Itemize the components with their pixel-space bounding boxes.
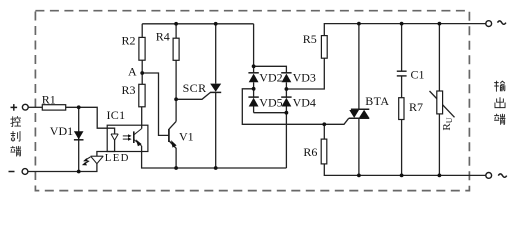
svg-text:VD1: VD1 [50,124,73,138]
svg-text:VD3: VD3 [293,71,316,85]
svg-text:R2: R2 [122,33,136,47]
svg-text:BTA: BTA [365,94,389,108]
svg-text:SCR: SCR [183,81,207,95]
svg-text:LED: LED [105,152,130,164]
svg-text:A: A [128,65,137,79]
svg-text:R5: R5 [303,32,317,46]
svg-text:R3: R3 [122,83,136,97]
svg-text:C1: C1 [411,67,425,81]
svg-text:R7: R7 [409,100,423,114]
svg-text:VD2: VD2 [259,71,282,85]
svg-text:VD4: VD4 [293,95,316,109]
svg-text:R6: R6 [303,145,317,159]
svg-text:R1: R1 [42,93,56,107]
svg-text:VD5: VD5 [259,95,282,109]
svg-text:V1: V1 [179,130,194,144]
svg-text:IC1: IC1 [107,108,126,122]
svg-text:R4: R4 [156,30,170,44]
